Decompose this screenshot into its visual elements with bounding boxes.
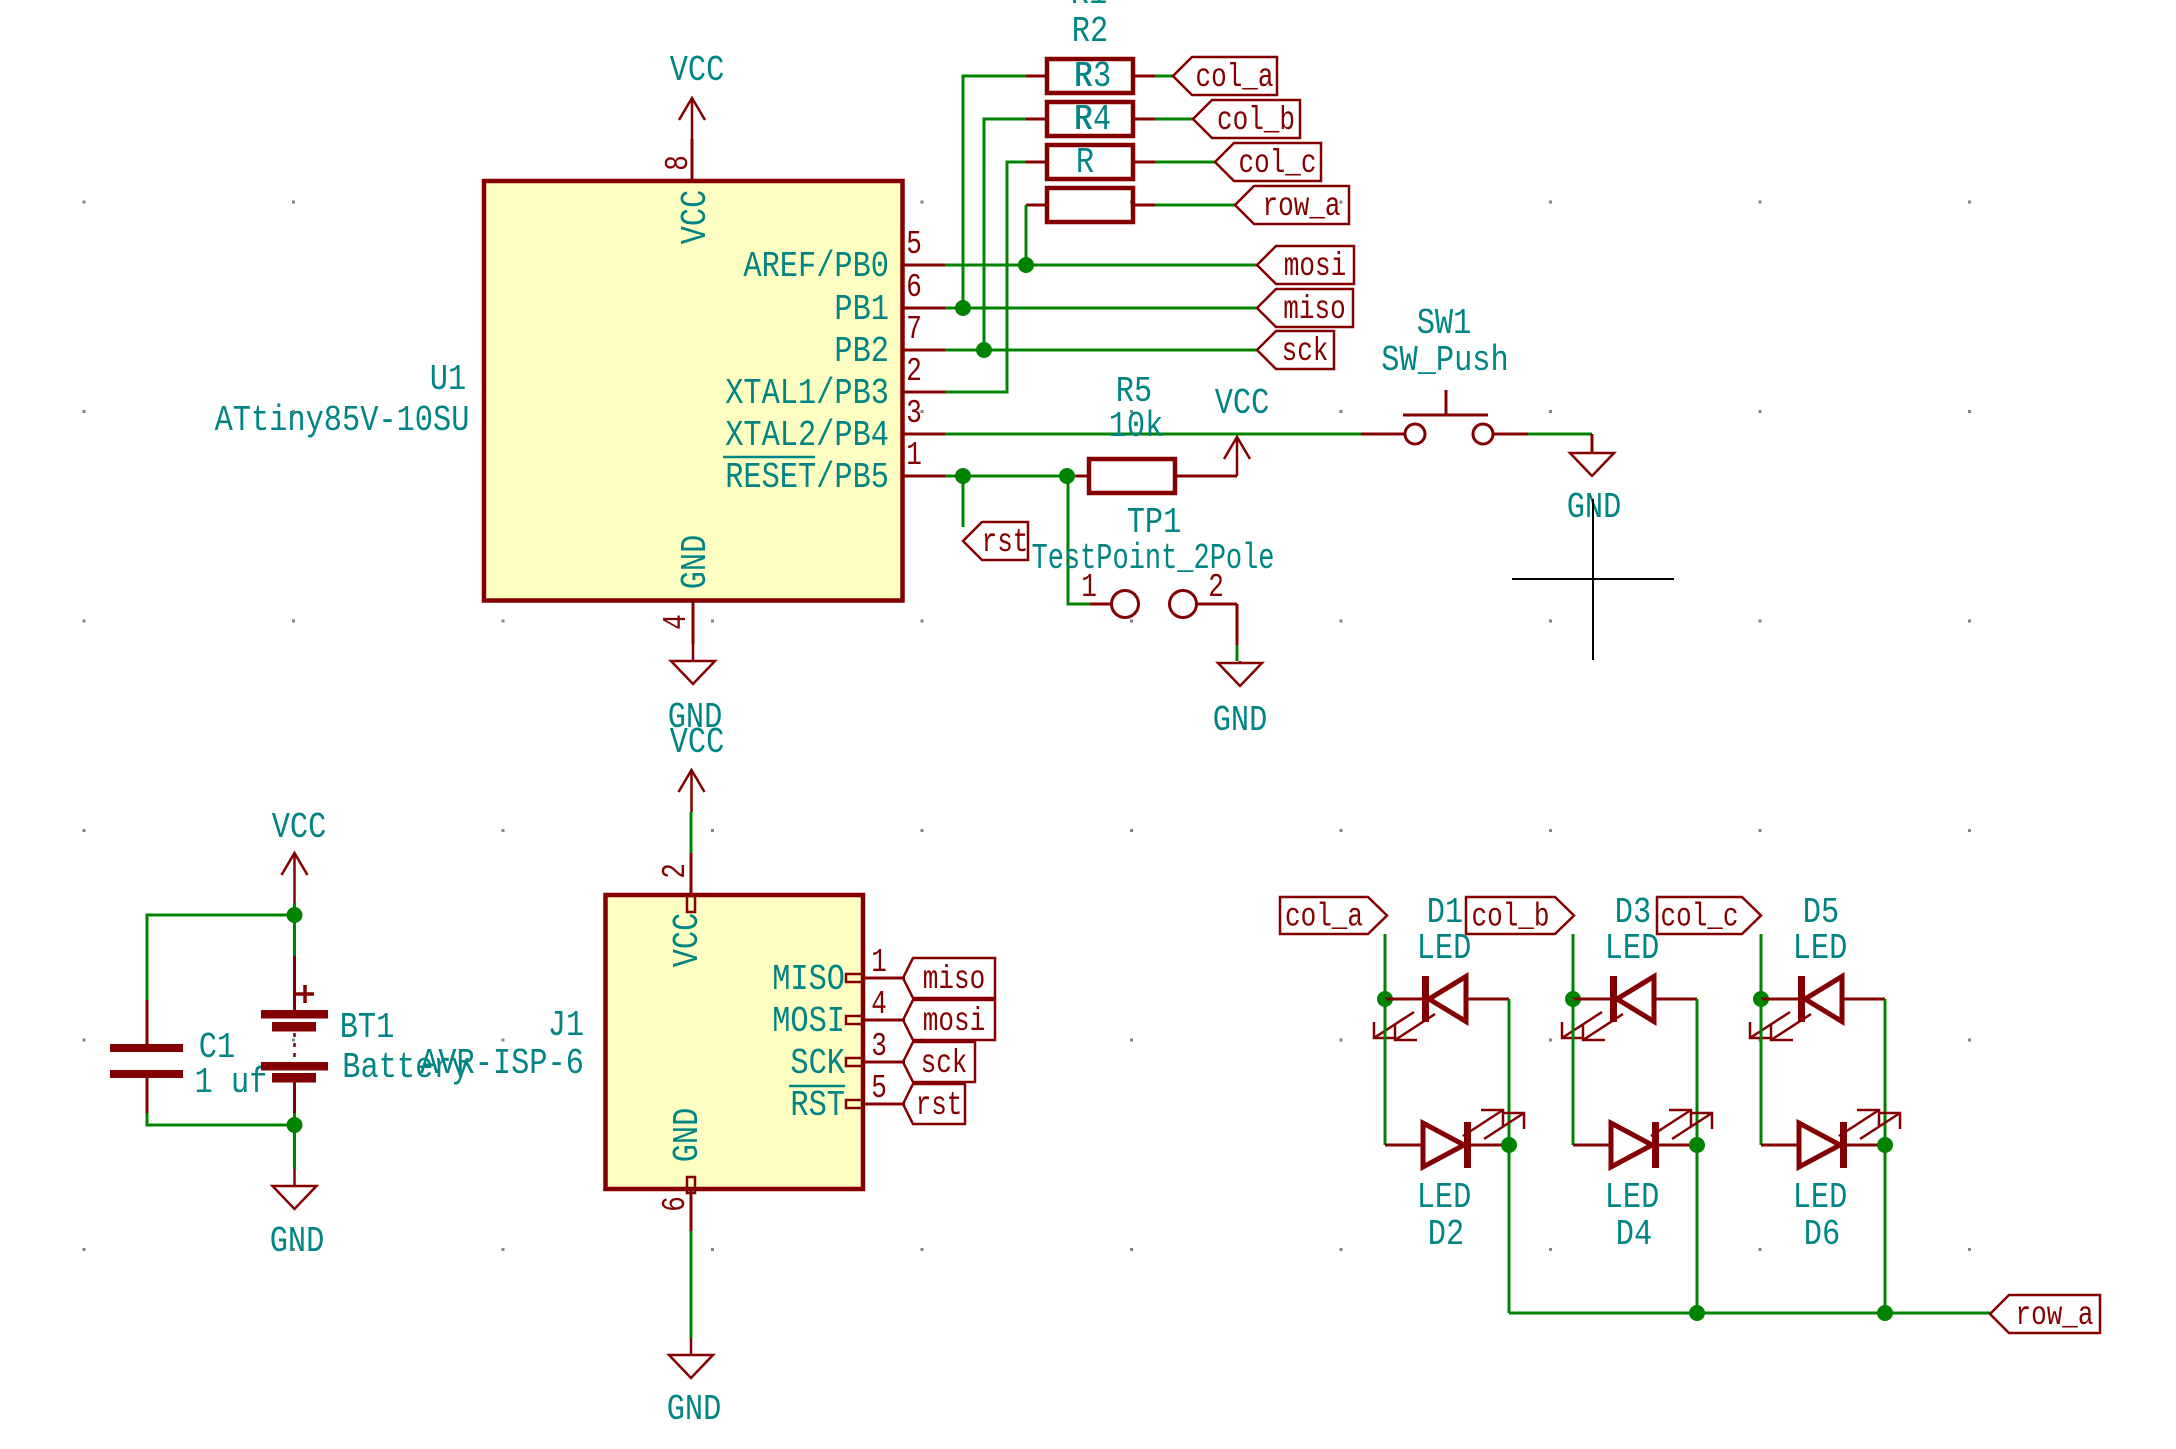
capacitor C1	[110, 1044, 183, 1078]
D6 value LED	[1793, 1177, 1848, 1218]
wire SW1 to GND	[1493, 434, 1592, 453]
wire D3 right down to D4	[1696, 999, 1699, 1145]
svg-text:5: 5	[871, 1070, 887, 1107]
LED D4	[1573, 1122, 1697, 1168]
resistor R2 body	[1026, 102, 1155, 136]
U1 pin name XTAL1/PB3	[725, 373, 889, 414]
J1 pin 4 stub	[846, 986, 905, 1024]
svg-text:SCK: SCK	[790, 1043, 845, 1084]
wire R2 left down to pin7 net	[984, 119, 1026, 350]
junction on row_a wire col 2	[1689, 1305, 1705, 1321]
junction on pin5 net	[1018, 257, 1034, 273]
LED D5 emission arrows	[1750, 1012, 1811, 1040]
svg-text:D3: D3	[1615, 892, 1651, 933]
svg-text:LED: LED	[1605, 928, 1660, 969]
VCC power symbol above U1	[670, 50, 725, 139]
svg-text:col_b: col_b	[1217, 102, 1295, 139]
D2 designator	[1428, 1214, 1464, 1255]
wire D5 right down to D6	[1884, 999, 1887, 1145]
hier label miso	[1257, 289, 1353, 328]
svg-text:PB1: PB1	[834, 289, 889, 330]
svg-text:2: 2	[657, 863, 694, 879]
svg-text:1: 1	[871, 944, 887, 981]
junction at D1 anode	[1377, 991, 1393, 1007]
junction GND node	[287, 1117, 303, 1133]
hier label col_b at LED matrix	[1466, 897, 1574, 936]
D1 value LED	[1417, 928, 1472, 969]
U1 pin name RESET/PB5 with overline	[723, 457, 889, 498]
svg-text:rst: rst	[982, 524, 1029, 561]
BT1 designator	[340, 1007, 395, 1048]
J1 pin name RST with overline	[789, 1085, 845, 1126]
cursor crosshair	[1512, 499, 1674, 660]
wire VCC node to BT1 top	[293, 915, 296, 1010]
U1 pin name PB1	[834, 289, 889, 330]
D6 designator	[1804, 1214, 1840, 1255]
svg-text:R2: R2	[1072, 11, 1108, 52]
resistor R3 body	[1026, 145, 1155, 179]
wire down to rst label	[962, 476, 965, 527]
LED D5	[1761, 976, 1885, 1022]
wire VCC to J1 pin2	[690, 812, 693, 853]
svg-text:VCC: VCC	[272, 807, 327, 848]
junction VCC node	[287, 907, 303, 923]
hier label sck	[1257, 331, 1334, 370]
svg-text:6: 6	[657, 1196, 694, 1212]
wire R4 right to row_a	[1155, 204, 1235, 207]
J1 value AVR-ISP-6	[420, 1043, 584, 1084]
svg-text:sck: sck	[1282, 333, 1329, 370]
svg-text:GND: GND	[1213, 700, 1268, 741]
hier label col_b	[1193, 100, 1300, 139]
TP1 pin 2 number	[1208, 569, 1224, 606]
wire BT1 bottom to GND	[293, 1082, 296, 1125]
svg-text:col_a: col_a	[1285, 899, 1363, 936]
svg-text:mosi: mosi	[1284, 248, 1346, 285]
D4 value LED	[1605, 1177, 1660, 1218]
J1 pin 3 stub	[846, 1028, 905, 1066]
U1 pin 1 stub	[903, 437, 945, 476]
TP1 value TestPoint_2Pole	[1032, 538, 1275, 579]
wire col_c down to D5	[1760, 934, 1763, 999]
hier label col_c at LED matrix	[1657, 897, 1761, 936]
LED D1	[1385, 976, 1509, 1022]
hier label mosi at J1	[903, 1000, 995, 1040]
D2 value LED	[1417, 1177, 1472, 1218]
IC U1 body	[484, 181, 903, 601]
U1 pin name GND rotated	[675, 535, 716, 590]
hier label row_a at LED matrix	[1990, 1295, 2100, 1334]
svg-text:VCC: VCC	[667, 913, 708, 968]
R1 designator (clipped at top)	[1071, 0, 1107, 14]
BT1 value Battery	[342, 1047, 469, 1088]
U1 pin 3 stub	[903, 395, 945, 434]
svg-text:5: 5	[906, 226, 922, 263]
junction pin1 rst	[955, 468, 971, 484]
LED D3 emission arrows	[1562, 1012, 1623, 1040]
svg-text:3: 3	[871, 1028, 887, 1065]
wire col_b down to D3	[1572, 934, 1575, 999]
D1 designator	[1427, 892, 1463, 933]
J1 pin 1 stub	[846, 944, 905, 982]
svg-text:GND: GND	[667, 1389, 722, 1430]
svg-text:GND: GND	[270, 1221, 325, 1262]
svg-text:sck: sck	[921, 1045, 968, 1082]
svg-text:D1: D1	[1427, 892, 1463, 933]
resistor R1 body	[1026, 59, 1155, 93]
svg-text:2: 2	[906, 353, 922, 390]
J1 pin 6 stub and number	[657, 1177, 695, 1231]
wire col_a down to D1	[1384, 934, 1387, 999]
wire D2 down to row	[1508, 1145, 1511, 1313]
connector J1 body	[606, 895, 864, 1189]
svg-text:R4: R4	[1075, 99, 1111, 140]
svg-text:miso: miso	[923, 961, 985, 998]
svg-text:MISO: MISO	[772, 959, 845, 1000]
hier label col_a at LED matrix	[1280, 897, 1387, 936]
D3 designator	[1615, 892, 1651, 933]
svg-text:XTAL1/PB3: XTAL1/PB3	[725, 373, 889, 414]
C1 value 1 uf	[195, 1062, 268, 1103]
J1 pin name MOSI	[772, 1001, 845, 1042]
U1 pin name AREF/PB0	[743, 246, 889, 287]
wire D5 left down to D6	[1760, 999, 1763, 1145]
junction at D6 cathode	[1877, 1137, 1893, 1153]
LED D2 emission arrows	[1463, 1110, 1524, 1139]
J1 pin name VCC rotated	[667, 913, 708, 968]
J1 pin 2 stub and number	[657, 853, 695, 912]
svg-text:6: 6	[906, 269, 922, 306]
junction pin1 TP1	[1059, 468, 1075, 484]
svg-text:LED: LED	[1417, 1177, 1472, 1218]
LED D6	[1761, 1122, 1885, 1168]
resistor R5 body	[1089, 459, 1175, 493]
R3 value R	[1076, 142, 1094, 183]
svg-text:4: 4	[658, 614, 695, 630]
wire D4 down to row	[1696, 1145, 1699, 1313]
svg-text:VCC: VCC	[670, 50, 725, 91]
LED D6 emission arrows	[1839, 1110, 1900, 1139]
U1 pin name VCC rotated	[675, 190, 716, 245]
svg-text:MOSI: MOSI	[772, 1001, 845, 1042]
GND power symbol below TP1	[1213, 661, 1268, 741]
wire pin3 to SW1	[945, 433, 1404, 436]
hier label sck at J1	[903, 1042, 975, 1082]
svg-text:miso: miso	[1283, 291, 1345, 328]
svg-text:BT1: BT1	[340, 1007, 395, 1048]
LED D3	[1573, 976, 1697, 1022]
wire J1 pin6 to GND	[690, 1231, 693, 1338]
svg-text:ATtiny85V-10SU: ATtiny85V-10SU	[215, 400, 470, 441]
wire GND node down	[293, 1125, 296, 1169]
VCC power symbol at R5	[1215, 383, 1270, 476]
svg-text:GND: GND	[675, 535, 716, 590]
svg-text:J1: J1	[548, 1005, 584, 1046]
svg-text:D2: D2	[1428, 1214, 1464, 1255]
U1 pin 7 stub	[903, 311, 945, 350]
R1 value R and R3 designator overlapped	[1074, 56, 1111, 97]
svg-text:3: 3	[906, 395, 922, 432]
LED D4 emission arrows	[1651, 1110, 1712, 1139]
svg-text:VCC: VCC	[670, 722, 725, 763]
svg-text:VCC: VCC	[1215, 383, 1270, 424]
U1 pin 5 stub	[903, 226, 945, 265]
wire R3 right to col_c	[1155, 161, 1215, 164]
D5 designator	[1803, 892, 1839, 933]
D5 value LED	[1793, 928, 1848, 969]
wire row_a	[1509, 1312, 1990, 1315]
SW1 designator	[1417, 303, 1472, 344]
U1 pin name PB2	[834, 331, 889, 372]
svg-text:col_c: col_c	[1661, 899, 1739, 936]
svg-text:col_a: col_a	[1196, 59, 1274, 96]
wire pin6 to miso label	[945, 307, 1257, 310]
svg-text:R3: R3	[1075, 56, 1111, 97]
svg-text:RESET/PB5: RESET/PB5	[725, 457, 889, 498]
R5 designator	[1116, 371, 1152, 412]
svg-text:AREF/PB0: AREF/PB0	[743, 246, 889, 287]
wire R5 to VCC	[1177, 475, 1237, 478]
svg-text:LED: LED	[1605, 1177, 1660, 1218]
U1 pin 2 stub	[903, 353, 945, 392]
J1 reference designator	[548, 1005, 584, 1046]
testpoint TP1	[1112, 591, 1197, 618]
wire R1 left down to pin6 net	[963, 76, 1026, 308]
SW1 value SW_Push	[1381, 340, 1508, 381]
wire pin2 up to R3	[945, 162, 1026, 392]
wire D3 left down to D4	[1572, 999, 1575, 1145]
U1 pin 6 stub	[903, 269, 945, 308]
U1 value ATtiny85V-10SU	[215, 400, 470, 441]
junction on pin6 net	[955, 300, 971, 316]
svg-text:TestPoint_2Pole: TestPoint_2Pole	[1032, 538, 1275, 579]
svg-text:8: 8	[660, 155, 697, 171]
svg-text:AVR-ISP-6: AVR-ISP-6	[420, 1043, 584, 1084]
TP1 pin 1 number	[1081, 569, 1097, 606]
wire TP1 pin2 to GND	[1197, 604, 1237, 661]
svg-text:LED: LED	[1793, 928, 1848, 969]
junction on row_a wire col 3	[1877, 1305, 1893, 1321]
wire D6 down to row	[1884, 1145, 1887, 1313]
svg-text:col_b: col_b	[1472, 899, 1550, 936]
U1 reference designator	[430, 359, 466, 400]
GND power symbol below J1	[667, 1338, 722, 1430]
svg-text:GND: GND	[667, 1108, 708, 1163]
svg-text:1: 1	[906, 437, 922, 474]
wire D1 right down to D2	[1508, 999, 1511, 1145]
svg-text:XTAL2/PB4: XTAL2/PB4	[725, 415, 889, 456]
hier label col_c	[1215, 143, 1321, 182]
wire pin5 to mosi label	[945, 264, 1257, 267]
GND power symbol below BT1	[270, 1169, 325, 1262]
svg-text:rst: rst	[916, 1087, 963, 1124]
svg-text:7: 7	[906, 311, 922, 348]
R5 value 10k	[1109, 406, 1164, 447]
svg-text:SW_Push: SW_Push	[1381, 340, 1508, 381]
U1 pin 4 stub and number	[658, 602, 695, 644]
LED D2	[1385, 1122, 1509, 1168]
D4 designator	[1616, 1214, 1652, 1255]
wire C1 bottom to GND node	[147, 1078, 295, 1125]
svg-text:4: 4	[871, 986, 887, 1023]
svg-text:TP1: TP1	[1127, 502, 1182, 543]
resistor R4 body	[1026, 188, 1155, 222]
svg-text:LED: LED	[1417, 928, 1472, 969]
J1 pin name GND rotated	[667, 1108, 708, 1163]
junction at D2 cathode	[1501, 1137, 1517, 1153]
svg-text:row_a: row_a	[2016, 1297, 2094, 1334]
svg-text:col_c: col_c	[1239, 145, 1317, 182]
junction at D3 anode	[1565, 991, 1581, 1007]
svg-text:U1: U1	[430, 359, 466, 400]
svg-text:1 uf: 1 uf	[195, 1062, 268, 1103]
wire VCC node to C1 top	[147, 915, 295, 1044]
svg-text:RST: RST	[790, 1085, 845, 1126]
svg-text:D4: D4	[1616, 1214, 1652, 1255]
svg-text:10k: 10k	[1109, 406, 1164, 447]
wire pin7 to sck label	[945, 349, 1257, 352]
svg-text:D6: D6	[1804, 1214, 1840, 1255]
hier label miso at J1	[903, 958, 995, 998]
hier label rst	[963, 522, 1028, 561]
U1 pin 8 stub and number	[660, 139, 697, 181]
hier label rst at J1	[903, 1084, 965, 1124]
TP1 designator	[1127, 502, 1182, 543]
J1 pin name MISO	[772, 959, 845, 1000]
junction at D4 cathode	[1689, 1137, 1705, 1153]
svg-text:row_a: row_a	[1263, 188, 1341, 225]
junction on pin7 net	[976, 342, 992, 358]
GND text of U1 gnd + VCC text above J1 vcc	[0, 0, 1, 1]
wire pin1 to R5	[945, 475, 1087, 478]
R2 designator	[1072, 11, 1108, 52]
svg-text:PB2: PB2	[834, 331, 889, 372]
GND power symbol below U1	[668, 644, 723, 738]
hier label row_a	[1235, 186, 1349, 225]
svg-text:SW1: SW1	[1417, 303, 1472, 344]
svg-text:VCC: VCC	[675, 190, 716, 245]
wire R4 left down to pin5 net	[1025, 205, 1028, 265]
wire R2 right to col_b	[1155, 118, 1193, 121]
D3 value LED	[1605, 928, 1660, 969]
C1 designator	[199, 1027, 235, 1068]
svg-text:R: R	[1076, 142, 1094, 183]
switch SW1	[1403, 390, 1493, 444]
wire D1 left down to D2	[1384, 999, 1387, 1145]
svg-text:mosi: mosi	[923, 1003, 985, 1040]
GND power symbol at SW1	[1567, 453, 1622, 528]
J1 pin name SCK	[790, 1043, 845, 1084]
hier label mosi	[1257, 246, 1354, 285]
svg-text:LED: LED	[1793, 1177, 1848, 1218]
VCC power symbol above BT1	[272, 807, 327, 915]
U1 pin name XTAL2/PB4	[725, 415, 889, 456]
VCC power symbol above J1	[670, 722, 725, 812]
svg-text:D5: D5	[1803, 892, 1839, 933]
LED D1 emission arrows	[1374, 1012, 1435, 1040]
J1 pin 5 stub	[846, 1070, 905, 1108]
wire R1 right to col_a	[1155, 75, 1173, 78]
junction at D5 anode	[1753, 991, 1769, 1007]
hier label col_a	[1173, 57, 1277, 96]
R2 value R and R4 designator overlapped	[1074, 99, 1111, 140]
wire down to TP1 pin1	[1068, 476, 1111, 604]
battery BT1	[261, 985, 328, 1083]
